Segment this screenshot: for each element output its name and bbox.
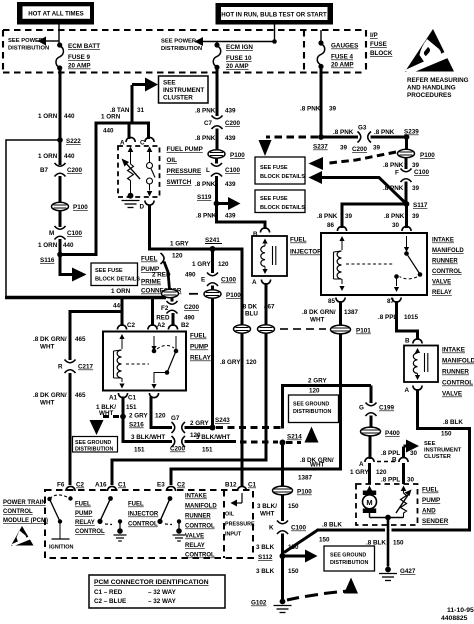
wire 2 RED 490 from C200 to relay pin B2 [172, 313, 175, 326]
svg-text:INSTRUMENT: INSTRUMENT [424, 448, 462, 454]
wire 1 ORN 440 to S116 [59, 239, 62, 256]
connector E C100 [201, 273, 237, 287]
svg-text:CLUSTER: CLUSTER [424, 454, 451, 460]
svg-text:RUNNER: RUNNER [185, 514, 211, 520]
svg-text:B12: B12 [225, 482, 237, 489]
bottom right note [441, 607, 474, 622]
splice S117 [404, 201, 410, 207]
svg-text:1387: 1387 [344, 309, 359, 316]
svg-text:C7: C7 [204, 120, 213, 127]
svg-text:C100: C100 [225, 167, 241, 174]
svg-text:SEE GROUND: SEE GROUND [293, 402, 329, 408]
svg-text:1 ORN: 1 ORN [38, 113, 58, 120]
wire .8 PPL 1015 from pin 87 down and jog to valve pin B [397, 301, 418, 340]
svg-text:SEE: SEE [424, 441, 436, 447]
svg-text:150: 150 [393, 540, 404, 547]
splice S222 [57, 137, 63, 143]
fuel pump prime connector pin [161, 253, 170, 290]
svg-text:CONTROL: CONTROL [3, 509, 33, 515]
connector B7 C200 on left wire [40, 163, 83, 177]
dashed wire G102 to up arrow into ground distribution box [287, 578, 358, 601]
wire down from bus B to C199 [370, 386, 373, 404]
junction dot at power feed [272, 39, 277, 44]
svg-text:A: A [405, 387, 410, 394]
svg-text:440: 440 [103, 128, 114, 135]
svg-text:86: 86 [327, 222, 335, 229]
wire .8 PNK 439 to P100 [216, 129, 219, 150]
wire drop from bus to relay pin C2 [121, 299, 124, 326]
PCM internal F6 ignition switch [47, 495, 73, 551]
svg-text:.8 PPL: .8 PPL [381, 450, 400, 457]
svg-text:.8 PNK: .8 PNK [374, 129, 395, 136]
fuel injector box [252, 236, 287, 276]
label OIL PRESSURE INPUT [225, 512, 255, 538]
wire DK BLU below oval down to A16 jog [112, 334, 266, 486]
label FUEL INJECTOR CONTROL [128, 502, 159, 528]
svg-text:WHT: WHT [310, 462, 324, 469]
svg-text:INSTRUMENT: INSTRUMENT [163, 87, 204, 94]
svg-text:F2: F2 [161, 305, 169, 312]
svg-text:3 BLK: 3 BLK [256, 568, 275, 575]
svg-text:SENDER: SENDER [422, 518, 449, 525]
fuse block dashed box [3, 30, 366, 73]
svg-text:CONTROL: CONTROL [185, 524, 215, 530]
svg-text:WHT: WHT [40, 400, 54, 407]
svg-text:L: L [206, 167, 210, 174]
connector P400 [361, 427, 401, 437]
wire .8 PNK 439 to S119 [215, 176, 218, 205]
wire from HOT AT ALL TIMES to fuse 9 [58, 25, 60, 44]
svg-text:20 AMP: 20 AMP [226, 63, 249, 70]
svg-text:150: 150 [288, 503, 299, 510]
svg-text:MANIFOLD: MANIFOLD [442, 358, 474, 365]
svg-text:440: 440 [64, 113, 75, 120]
svg-text:S222: S222 [66, 138, 81, 145]
svg-text:.8 DK: .8 DK [241, 304, 258, 311]
PCM internal B12 input arrow [231, 493, 243, 507]
wire drop from bus to relay pin A2 [151, 299, 154, 326]
label INTAKE MANIFOLD RUNNER CONTROL VALVE RELAY CONTROL [185, 494, 217, 559]
see power distribution label (left) [8, 38, 49, 52]
svg-text:FUSE 10: FUSE 10 [226, 55, 252, 62]
wire .8 BLK 150 long bar from S112 diagonal to right riser [284, 530, 471, 553]
dashes between pump pins [377, 461, 396, 463]
svg-text:1 GRY: 1 GRY [192, 261, 211, 268]
svg-text:C200: C200 [67, 167, 83, 174]
svg-text:39: 39 [340, 145, 348, 152]
svg-text:1 GRY: 1 GRY [350, 469, 369, 476]
svg-text:A2: A2 [157, 322, 166, 329]
svg-text:C100: C100 [291, 525, 307, 532]
wire .8 DK BLU 467 from injector A down [265, 283, 268, 325]
wire .8 TAN 31 from instrument cluster to pin C [132, 85, 149, 139]
svg-text:BLOCK DETAILS: BLOCK DETAILS [260, 174, 305, 180]
svg-text:C1: C1 [128, 395, 137, 402]
ESD symbol at PCM [11, 526, 34, 546]
relay internals: dashed link and switch [126, 336, 178, 389]
connector oval on GRY wire (P101 row) [234, 325, 251, 333]
svg-text:RELAY: RELAY [432, 290, 452, 296]
wire junction to fuse 10 [216, 42, 218, 44]
svg-text:439: 439 [225, 181, 236, 188]
connector R C217 [58, 360, 94, 374]
svg-text:B2: B2 [181, 322, 190, 329]
svg-text:FUEL: FUEL [190, 333, 207, 340]
svg-text:1 GRY: 1 GRY [170, 241, 189, 248]
connector C7 C200 [204, 116, 241, 130]
svg-text:1 ORN: 1 ORN [111, 288, 131, 295]
svg-text:S239: S239 [404, 129, 419, 136]
svg-text:.8 DK GRN/: .8 DK GRN/ [33, 336, 67, 343]
wire .8 GRY below P100 down to S243 [211, 299, 214, 427]
wire into gauges fuse [320, 30, 322, 42]
wire .8 PNK 39 from S237 to G3 [321, 136, 358, 139]
svg-text:FUSE 4: FUSE 4 [331, 54, 354, 61]
svg-text:SEE FUSE: SEE FUSE [260, 196, 288, 202]
svg-text:C199: C199 [379, 405, 395, 412]
REFER MEASURING AND HANDLING PROCEDURES [407, 77, 469, 99]
svg-text:465: 465 [75, 392, 86, 399]
wire C199 to P400 [370, 416, 373, 428]
svg-text:S214: S214 [287, 434, 302, 441]
svg-text:– 32 WAY: – 32 WAY [148, 589, 177, 596]
svg-text:ECM BATT: ECM BATT [68, 43, 100, 50]
svg-text:SEE FUSE: SEE FUSE [95, 268, 123, 274]
wire C1 2 GRY 120 down to bus [151, 397, 172, 428]
svg-text:439: 439 [225, 213, 236, 220]
splice S241 [210, 246, 216, 252]
IMRC relay internals: coil [334, 236, 345, 291]
box SEE GROUND DISTRIBUTION (bottom) [324, 546, 375, 571]
wire to C100 M [59, 211, 62, 227]
svg-text:DISTRIBUTION: DISTRIBUTION [330, 560, 368, 566]
svg-text:30: 30 [410, 450, 418, 457]
svg-text:.8 PNK: .8 PNK [195, 181, 216, 188]
IMRC relay bottom pin arcs 85 87 [336, 298, 401, 303]
connector P100 (left) [52, 202, 89, 211]
svg-text:SWITCH: SWITCH [167, 179, 192, 186]
connector F C100 [395, 169, 430, 183]
dashed wire from P100 right to arrow into SEE FUSE BLOCK DETAILS top [309, 152, 397, 170]
wire P400 to fuel pump pin A [369, 436, 372, 459]
svg-text:INTAKE: INTAKE [185, 494, 207, 500]
relay bottom pin arcs A1 C1 [118, 393, 158, 398]
svg-text:SEE FUSE: SEE FUSE [260, 165, 288, 171]
svg-text:C2: C2 [127, 322, 136, 329]
svg-text:C200: C200 [184, 304, 200, 311]
connector P100 (center low) [204, 290, 241, 299]
svg-text:1 ORN: 1 ORN [38, 153, 58, 160]
fuse ECM IGN FUSE 10 [213, 42, 253, 70]
fuel injector pin A [252, 279, 271, 286]
wire S116 to see fuse block details arrow [60, 256, 73, 275]
svg-text:PRIME: PRIME [141, 279, 161, 286]
pump internal ground bar and junction [370, 515, 404, 567]
wire A1 1 BLK/WHT 151 down [122, 397, 125, 444]
wire gauges fuse output .8 PNK 39 to S237 [320, 67, 323, 140]
svg-text:M: M [49, 230, 54, 237]
fuel pump relay box [103, 332, 186, 391]
label FUEL INJECTOR [290, 237, 322, 256]
svg-text:A1: A1 [109, 395, 118, 402]
splice S243 [210, 425, 216, 431]
svg-text:P100: P100 [73, 204, 88, 211]
connector G7 C200 (horizontal) [171, 415, 185, 433]
svg-text:AND: AND [422, 508, 436, 515]
svg-text:R: R [58, 364, 63, 371]
wire .8 PNK 439 below S119 to fuel injector jog [217, 205, 266, 229]
svg-text:M: M [366, 498, 372, 507]
wire S117 diagonal to arrow into SEE FUSE BLOCK DETAILS top [309, 171, 407, 204]
arrow to SEE INSTRUMENT CLUSTER box [132, 78, 158, 92]
svg-text:RUNNER: RUNNER [442, 369, 469, 376]
see power distribution label (middle) [161, 39, 202, 53]
svg-text:I/P: I/P [370, 32, 378, 39]
PCM pin B12 C1 [225, 482, 257, 492]
svg-text:SEE: SEE [163, 80, 176, 87]
splice S214 [280, 440, 286, 446]
connector F2 C200 [161, 298, 200, 314]
label fuel pump oil pressure switch [167, 146, 203, 186]
wire 3 BLK/WHT 151 from C200 to S214 [185, 440, 237, 443]
svg-text:C200: C200 [352, 146, 368, 153]
svg-text:.8 PNK: .8 PNK [300, 106, 321, 113]
box SEE FUSE BLOCK DETAILS (top) [255, 157, 305, 184]
riser 2 GRY up to bus B [283, 386, 372, 429]
svg-text:3 BLK/WHT: 3 BLK/WHT [196, 434, 230, 441]
connector row dashes at P101 level [280, 328, 326, 330]
svg-text:FUSE 9: FUSE 9 [68, 54, 91, 61]
wire to P100 [211, 286, 214, 291]
svg-text:150: 150 [288, 568, 299, 575]
svg-text:SEE GROUND: SEE GROUND [330, 553, 366, 559]
PCM pin F6 C2 [57, 482, 85, 492]
ground G427 [379, 567, 416, 581]
svg-text:11-10-95: 11-10-95 [447, 607, 474, 614]
svg-text:C100: C100 [67, 230, 83, 237]
connector L C100 [206, 159, 241, 177]
svg-text:FUEL: FUEL [141, 256, 158, 263]
svg-text:MANIFOLD: MANIFOLD [185, 504, 217, 510]
svg-text:SEE GROUND: SEE GROUND [75, 440, 111, 446]
svg-text:.8 PNK: .8 PNK [383, 162, 404, 169]
svg-text:RELAY: RELAY [190, 355, 212, 362]
pressure switch internal: switch branch pin C to D [147, 147, 156, 197]
svg-text:VALVE: VALVE [185, 534, 204, 540]
wire 3 BLK 150 from C100 to S112 [281, 534, 284, 559]
header box HOT IN RUN, BULB TEST OR START [216, 3, 334, 25]
wire ECM IGN fuse output .8 PNK 439 [216, 67, 219, 116]
bus 1 ORN 440 [5, 296, 166, 299]
svg-text:30: 30 [392, 222, 400, 229]
splice S237 [318, 134, 324, 140]
svg-text:P100: P100 [297, 489, 312, 496]
svg-text:IGNITION: IGNITION [49, 545, 73, 551]
wire 1 ORN jog to pin A of pressure switch [96, 123, 129, 139]
svg-text:P400: P400 [385, 430, 400, 437]
svg-text:C2: C2 [177, 482, 186, 489]
svg-text:465: 465 [75, 336, 86, 343]
svg-text:P100: P100 [226, 292, 241, 299]
wire 1 GRY 120 from S241 down [211, 249, 214, 273]
wire .8 DK GRN/WHT 1387 from pin 85 down [339, 301, 342, 325]
svg-text:.8 DK GRN/: .8 DK GRN/ [33, 392, 67, 399]
svg-text:C2 – BLUE: C2 – BLUE [94, 598, 126, 605]
wire S239 down to P100 [405, 137, 408, 149]
arrow S112 to see ground distribution [285, 550, 318, 563]
svg-text:.8 BLK: .8 BLK [322, 522, 342, 529]
svg-text:S237: S237 [313, 144, 328, 151]
wire 3 BLK/WHT 151 bus from A1 to C200 [123, 440, 172, 443]
svg-text:CONTROL: CONTROL [442, 380, 473, 387]
svg-text:1015: 1015 [404, 314, 419, 321]
svg-text:OIL: OIL [225, 512, 235, 518]
svg-text:490: 490 [185, 272, 196, 279]
svg-text:B7: B7 [40, 167, 49, 174]
box SEE GROUND DISTRIBUTION (left) [73, 437, 118, 453]
arrow S119 to see fuse block details [219, 197, 241, 210]
splice S239 [404, 134, 410, 140]
svg-text:20 AMP: 20 AMP [68, 63, 91, 70]
svg-text:2 GRY: 2 GRY [190, 420, 209, 427]
ground G102 [251, 599, 292, 613]
svg-text:150: 150 [441, 431, 452, 438]
svg-text:120: 120 [218, 261, 229, 268]
svg-text:P100: P100 [230, 152, 245, 159]
svg-text:MANIFOLD: MANIFOLD [432, 248, 464, 254]
svg-text:PUMP: PUMP [190, 344, 208, 351]
svg-text:440: 440 [64, 153, 75, 160]
box SEE GROUND DISTRIBUTION (center) [289, 395, 339, 423]
svg-text:C100: C100 [221, 277, 237, 284]
dashed wire from S237 to down arrow at box [259, 137, 319, 156]
svg-text:151: 151 [202, 447, 213, 454]
fuel pump oil pressure switch: pin A [120, 137, 135, 146]
svg-text:S116: S116 [40, 257, 55, 264]
svg-text:C217: C217 [78, 364, 94, 371]
wire 3 BLK/WHT 150 from P100 to C100 K [281, 495, 284, 521]
splice S119 [214, 201, 220, 207]
connector C200 oval on prime wire [162, 289, 179, 297]
svg-text:S243: S243 [215, 417, 230, 424]
svg-text:PUMP: PUMP [422, 497, 440, 504]
wire 3 BLK 150 from S112 to G102 [281, 558, 284, 600]
svg-text:OIL: OIL [167, 157, 178, 164]
PCM connector identification table [89, 575, 225, 608]
IMRC valve box [404, 346, 438, 383]
wire .8 PNK 39 from C100 to S117 [405, 182, 408, 207]
svg-text:C1: C1 [248, 482, 257, 489]
svg-text:1 ORN: 1 ORN [101, 114, 121, 121]
svg-text:RELAY: RELAY [185, 543, 205, 549]
svg-text:CLUSTER: CLUSTER [163, 95, 193, 102]
arrow to see power distribution (left) [38, 37, 60, 46]
svg-text:85: 85 [328, 298, 336, 305]
svg-text:S119: S119 [197, 194, 212, 201]
wire drop from bus to PCM F6 via C217 (.8 DK GRN/WHT 465) [70, 312, 122, 486]
connector K C100 [269, 521, 307, 535]
label INTAKE MANIFOLD RUNNER CONTROL VALVE [442, 347, 474, 398]
svg-text:INTAKE: INTAKE [442, 347, 465, 354]
svg-text:VALVE: VALVE [432, 280, 451, 286]
svg-text:CONTROL: CONTROL [432, 269, 462, 275]
fuel pump pin arcs A B [365, 457, 408, 462]
svg-text:E: E [201, 277, 205, 284]
label FUEL PUMP RELAY [190, 333, 212, 362]
svg-text:DISTRIBUTION: DISTRIBUTION [8, 46, 49, 52]
svg-text:39: 39 [412, 213, 420, 220]
svg-text:K: K [269, 525, 274, 532]
svg-text:490: 490 [184, 315, 195, 322]
svg-text:RELAY: RELAY [75, 520, 95, 526]
wire from HOT IN RUN box down to junction [274, 25, 276, 43]
svg-text:C200: C200 [225, 120, 241, 127]
label FUEL PUMP RELAY CONTROL [75, 502, 105, 536]
svg-text:.8 PNK: .8 PNK [195, 108, 216, 115]
svg-text:F: F [395, 170, 399, 177]
dashed wire from bus to S214 and arrow up to ground distribution box [240, 427, 319, 443]
svg-text:INJECTOR: INJECTOR [128, 512, 159, 518]
svg-text:P101: P101 [356, 328, 371, 335]
dashed wire S243 to riser [216, 426, 281, 429]
splice S216 dot [120, 414, 126, 420]
svg-text:WHT: WHT [40, 344, 54, 351]
valve internals: coil and core [413, 348, 427, 380]
header box HOT AT ALL TIMES [17, 2, 94, 25]
ESD symbol top right [404, 29, 454, 73]
svg-text:120: 120 [172, 253, 183, 260]
svg-text:B: B [405, 338, 410, 345]
svg-text:G: G [359, 405, 364, 412]
wire 1 GRY 120 from pin D to S241 [150, 205, 211, 250]
label SEE INSTRUMENT CLUSTER (right) [424, 441, 462, 460]
arrow to see power distribution (middle) [195, 37, 275, 46]
svg-text:1 ORN: 1 ORN [38, 242, 58, 249]
svg-text:440: 440 [63, 242, 74, 249]
pump motor M [363, 486, 377, 518]
svg-text:PROCEDURES: PROCEDURES [407, 92, 451, 99]
svg-text:FUEL: FUEL [75, 502, 91, 508]
svg-text:D: D [140, 204, 145, 211]
svg-text:BLOCK: BLOCK [370, 50, 393, 57]
connector P101 [331, 325, 372, 334]
svg-text:BLU: BLU [245, 311, 258, 318]
svg-text:3 BLK: 3 BLK [256, 544, 275, 551]
fuel injector pin B [253, 228, 270, 238]
connector row dashes at P100 level [189, 293, 198, 295]
wire to P100 [59, 176, 62, 202]
svg-text:POWER TRAIN: POWER TRAIN [3, 500, 46, 506]
svg-text:DISTRIBUTION: DISTRIBUTION [293, 409, 331, 415]
pressure switch internal: sender branch pin A [122, 147, 141, 199]
svg-text:SEE POWER: SEE POWER [161, 39, 197, 45]
svg-text:FUEL PUMP: FUEL PUMP [167, 146, 203, 153]
svg-text:439: 439 [225, 108, 236, 115]
box SEE INSTRUMENT CLUSTER (upper) [159, 76, 209, 103]
svg-text:E3: E3 [157, 482, 165, 489]
connector P100 (center) [208, 150, 245, 159]
svg-text:150: 150 [319, 537, 330, 544]
fuse ECM BATT FUSE 9 [56, 42, 100, 70]
wire ECM BATT fuse output 1 ORN 440 down to S222 [59, 68, 62, 165]
svg-text:FUSE: FUSE [370, 41, 387, 48]
wire .8 PNK 39 from G3 to S239 [371, 136, 407, 139]
svg-text:RUNNER: RUNNER [432, 259, 458, 265]
svg-text:INPUT: INPUT [225, 532, 242, 538]
IMRC relay box [321, 233, 427, 295]
valve pin B arc [405, 338, 422, 345]
valve pin A arc [405, 386, 423, 395]
